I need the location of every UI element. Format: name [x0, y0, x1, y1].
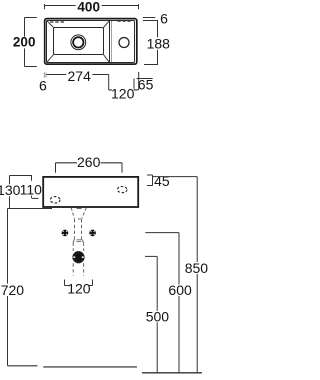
elevation: pipe coupling hidden marks — [73, 239, 83, 243]
dimension 720 line — [8, 209, 53, 366]
svg-text:120: 120 — [67, 281, 91, 297]
dimension 45 bracket — [147, 175, 153, 186]
dimension 130 line — [9, 176, 11, 208]
elevation: basin front rectangle — [43, 177, 138, 207]
plan view: overflow hidden dashes right — [118, 20, 131, 22]
elevation: waste pipe hidden lines — [73, 219, 83, 251]
svg-text:400: 400 — [77, 0, 100, 15]
plan view: drain inner circle — [73, 37, 83, 47]
dimension 130/110 top bracket — [10, 175, 33, 177]
elevation: pipe below outlet hidden lines — [73, 263, 83, 275]
dimension 850 line — [153, 177, 198, 373]
dimension 200 line — [25, 18, 37, 67]
elevation: hidden dashed ellipse right — [117, 187, 127, 193]
elevation: floor line under basin — [43, 366, 137, 368]
dimension 400 label — [76, 0, 102, 15]
svg-text:274: 274 — [68, 68, 92, 84]
svg-text:188: 188 — [147, 35, 171, 51]
svg-text:200: 200 — [13, 34, 36, 49]
elevation: floor line right — [142, 372, 202, 374]
elevation: waste funnel hidden lines — [71, 208, 86, 219]
dimension 260 label — [77, 154, 101, 170]
dimension 260 line — [56, 163, 123, 173]
plan view: bowl bottom rectangle — [54, 28, 104, 55]
plan view: bowl corner diagonal top-left — [47, 21, 54, 28]
svg-text:130: 130 — [0, 182, 21, 198]
svg-text:260: 260 — [77, 154, 101, 170]
dimension 120 elevation brackets — [65, 280, 93, 286]
elevation: fixing hole right — [89, 230, 96, 237]
dimension 130 label — [0, 182, 21, 198]
elevation: hidden dashed ellipse left — [50, 197, 60, 203]
plan view: drain outer circle — [71, 35, 86, 50]
dimension 110 line — [32, 176, 39, 199]
dimension 600 line — [145, 233, 179, 373]
dimension 274 label — [66, 68, 92, 84]
plan view: bowl corner diagonal top-right — [103, 21, 109, 28]
plan view: inner rim rectangle — [47, 21, 135, 63]
dimension 500 line — [145, 256, 157, 372]
plan view: bowl corner diagonal bottom-right — [103, 55, 109, 63]
svg-text:6: 6 — [160, 11, 168, 27]
svg-text:6: 6 — [39, 78, 47, 94]
dimension 65 line — [137, 72, 153, 90]
dimension 6 bottom-left ticks — [44, 73, 46, 78]
dimension 6 top-right extension lines — [143, 18, 158, 21]
plan view: bowl corner diagonal bottom-left — [47, 55, 54, 63]
svg-text:110: 110 — [20, 181, 43, 197]
svg-text:45: 45 — [154, 173, 170, 189]
svg-text:850: 850 — [185, 260, 208, 276]
dimension 120 plan label — [111, 85, 135, 101]
plan view: bowl right edge line — [109, 21, 111, 63]
elevation: fixing hole left — [62, 230, 69, 237]
elevation: wall drain outlet — [72, 252, 84, 263]
plan view: deck separation gray line — [111, 21, 113, 62]
plan view: tap hole circle — [119, 38, 129, 48]
dimension 120 plan line — [109, 79, 139, 90]
dimension 188 line — [144, 21, 158, 65]
svg-text:65: 65 — [138, 76, 154, 92]
svg-text:120: 120 — [111, 85, 135, 101]
plan view: overflow hidden dashes left — [50, 21, 65, 23]
svg-text:720: 720 — [1, 282, 25, 298]
dimension 274 line — [47, 75, 109, 90]
svg-text:600: 600 — [168, 282, 192, 298]
svg-text:500: 500 — [146, 308, 170, 324]
dimension 200 label — [10, 34, 38, 49]
plan view: basin outer rectangle — [45, 19, 137, 64]
dimension 400 line — [45, 4, 139, 9]
